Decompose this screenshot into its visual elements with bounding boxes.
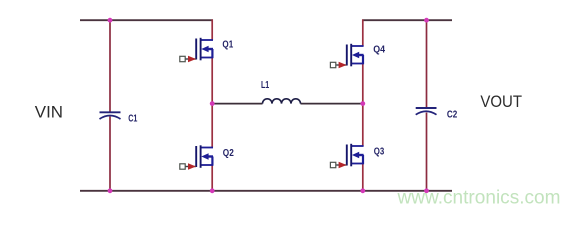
wire C2 upper leg vertical [426, 19, 428, 108]
svg-text:VIN: VIN [35, 103, 63, 122]
wire Q3 source to ground rail [362, 164, 364, 192]
junction ground / C1 [108, 188, 113, 193]
capacitor C1 [100, 112, 121, 119]
transistor Q1 [180, 38, 213, 62]
wire Q1 source to node SW1 [211, 58, 213, 105]
transistor Q4 [330, 44, 363, 68]
svg-text:C1: C1 [128, 114, 138, 125]
junction node SW1 [210, 101, 215, 106]
wire middle-right horizontal (L1 to node SW2) [301, 103, 364, 105]
wire Q1 drain vertical [211, 19, 213, 40]
wire C1 upper leg vertical [109, 19, 111, 112]
junction ground / C2 [424, 188, 429, 193]
svg-text:Q4: Q4 [373, 45, 385, 56]
junction ground / Q2 [210, 188, 215, 193]
junction ground / Q3 [360, 188, 365, 193]
transistor Q3 [330, 144, 363, 168]
wire node SW2 to Q3 drain [362, 104, 364, 146]
wire middle-left horizontal (node SW1 to L1) [213, 103, 263, 105]
svg-text:L1: L1 [261, 80, 270, 91]
junction node SW2 [360, 101, 365, 106]
svg-text:Q1: Q1 [222, 40, 233, 51]
wire Q2 source to ground rail [211, 165, 213, 192]
svg-text:Q3: Q3 [374, 146, 385, 157]
wire C2 lower leg vertical [426, 113, 428, 192]
transistor Q2 [180, 145, 213, 169]
wire Q4 drain vertical [362, 19, 364, 46]
wire C1 lower leg vertical [109, 117, 111, 192]
wire Q4 source to node SW2 [362, 64, 364, 105]
svg-text:C2: C2 [447, 109, 458, 120]
wire bottom horizontal (ground rail) [80, 190, 452, 192]
svg-text:Q2: Q2 [223, 148, 234, 159]
wire top-left horizontal [80, 19, 213, 21]
svg-text:www.cntronics.com: www.cntronics.com [397, 187, 561, 209]
junction node VIN rail / C1 [108, 18, 113, 23]
junction node VOUT rail / C2 [424, 18, 429, 23]
svg-text:VOUT: VOUT [480, 92, 522, 111]
capacitor C2 [416, 108, 437, 115]
inductor L1 [263, 99, 301, 104]
wire node SW1 to Q2 drain [211, 104, 213, 148]
wire top-right horizontal [362, 19, 452, 21]
